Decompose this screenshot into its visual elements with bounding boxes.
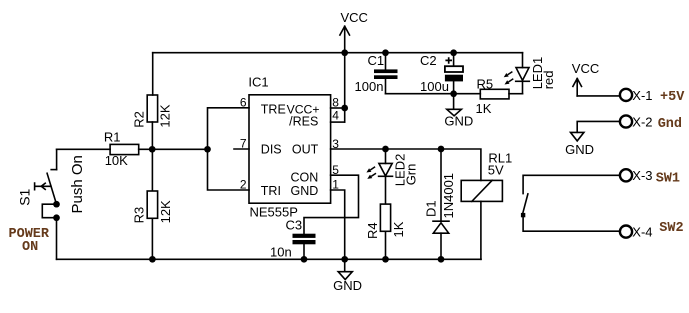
wire S1 top lead	[56, 149, 58, 169]
svg-text:VCC: VCC	[572, 61, 599, 76]
svg-text:100u: 100u	[420, 79, 449, 94]
capacitor C2 plus sign	[445, 57, 452, 64]
wire VCC vertical to pin 8 and pin 4	[344, 53, 346, 122]
wire LED2 top lead	[385, 149, 387, 163]
svg-text:5V: 5V	[488, 162, 504, 177]
LED2 emission arrows	[366, 167, 376, 179]
wire RL1 bottom lead	[480, 201, 482, 259]
LED2 cathode bar	[379, 175, 393, 177]
svg-text:X-4: X-4	[632, 224, 652, 239]
node C2 bottom	[450, 90, 457, 97]
svg-text:OUT: OUT	[292, 143, 319, 157]
wire pin 7 stub	[234, 148, 249, 150]
svg-text:3: 3	[332, 137, 339, 151]
capacitor C2 top plate	[445, 66, 463, 72]
wire LED1 bottom lead	[522, 81, 524, 93]
node GND rail junction	[341, 256, 348, 263]
wire R2 top lead	[152, 53, 154, 95]
wire OUT pin 3 to relay	[331, 149, 481, 180]
svg-text:X-1: X-1	[632, 88, 652, 103]
wire bottom rail	[57, 258, 481, 260]
wire R3 bottom lead	[151, 218, 153, 259]
svg-text:VCC: VCC	[341, 10, 368, 25]
wire R2 bottom lead	[151, 122, 153, 149]
svg-text:ON: ON	[22, 240, 38, 255]
wire X-2 lead	[577, 121, 619, 132]
svg-text:+5V: +5V	[660, 90, 685, 105]
wire GND lead bottom middle	[344, 259, 346, 271]
resistor R3 body	[147, 191, 157, 218]
wire C2 bottom lead	[453, 81, 455, 94]
node OUT D1	[438, 146, 445, 153]
svg-text:X-3: X-3	[632, 168, 652, 183]
wire R3 top lead	[151, 149, 153, 190]
svg-text:SW1: SW1	[656, 172, 680, 187]
node VCC rail at vertical	[341, 49, 348, 56]
relay contact pad square	[521, 213, 525, 217]
svg-text:R2: R2	[132, 111, 147, 128]
capacitor C1 plates	[374, 69, 398, 79]
wire R1 left lead	[57, 148, 111, 150]
wire pin 5 to C3	[304, 175, 359, 234]
power VCC symbol arrow (top)	[340, 26, 350, 53]
wire X-3 lead	[523, 175, 619, 193]
svg-text:TRE: TRE	[261, 102, 286, 116]
svg-text:6: 6	[240, 95, 247, 109]
svg-text:7: 7	[240, 136, 247, 150]
wire LED2 to R4	[385, 176, 387, 203]
switch S1 fixed contact tick	[51, 169, 56, 171]
wire pin 8 stub	[331, 107, 345, 109]
diode D1 cathode bar	[433, 220, 449, 222]
svg-text:SW2: SW2	[659, 221, 683, 236]
svg-text:S1: S1	[16, 188, 32, 205]
svg-text:IC1: IC1	[248, 74, 268, 89]
relay RL1 coil diagonal	[472, 180, 492, 201]
svg-text:TRI: TRI	[261, 184, 281, 198]
wire C1 bottom lead	[385, 79, 387, 94]
relay RL1 coil box	[461, 180, 502, 201]
wire X-4 lead	[523, 215, 619, 231]
svg-text:R1: R1	[104, 130, 121, 145]
svg-text:4: 4	[332, 109, 339, 123]
svg-text:R5: R5	[477, 76, 494, 91]
wire C1 to C2 bottom	[386, 93, 454, 95]
LED1 emission arrows	[504, 72, 514, 85]
wire C2 top lead	[453, 53, 455, 66]
svg-text:X-2: X-2	[632, 114, 652, 129]
svg-text:10n: 10n	[270, 244, 292, 259]
svg-text:GND: GND	[565, 142, 594, 157]
node trigger bus junction	[204, 146, 211, 153]
relay contact blade	[522, 194, 528, 215]
svg-text:GND: GND	[444, 113, 473, 128]
svg-text:12K: 12K	[158, 200, 173, 223]
node C1 top	[382, 49, 389, 56]
svg-text:GND: GND	[291, 184, 319, 198]
connector X-4 pad	[620, 226, 632, 238]
capacitor C3 plates	[293, 234, 316, 245]
svg-text:D1: D1	[424, 200, 439, 217]
svg-text:CON: CON	[291, 170, 319, 184]
capacitor C2 bottom plate	[445, 75, 463, 82]
wire R5 right lead	[509, 93, 523, 95]
wire R1 right lead	[139, 148, 208, 150]
svg-text:R3: R3	[132, 207, 147, 224]
svg-text:GND: GND	[333, 278, 362, 293]
switch S1 contact bracket	[42, 204, 56, 218]
wire GND lead under C2	[453, 94, 455, 110]
wire pin 1 to ground	[331, 190, 345, 259]
power VCC symbol arrow (right)	[573, 79, 582, 96]
wire D1 top lead	[440, 149, 442, 221]
wire pin 4 stub	[331, 121, 345, 123]
svg-text:10K: 10K	[105, 153, 128, 168]
ground symbol bottom middle	[338, 272, 352, 280]
ground symbol at X-2	[571, 132, 584, 141]
svg-text:DIS: DIS	[261, 143, 282, 157]
wire pin 6 to pin 2 left bus	[208, 108, 250, 190]
switch S1 blade	[47, 173, 56, 204]
LED1 cathode bar	[516, 80, 530, 82]
svg-text:1N4001: 1N4001	[441, 173, 456, 219]
node OUT LED2	[382, 146, 389, 153]
node S1 contact bottom	[53, 214, 60, 221]
LED2 diode triangle	[379, 163, 392, 176]
node R1 R2 R3 junction	[149, 146, 156, 153]
resistor R5 body	[480, 89, 509, 99]
svg-text:Grn: Grn	[404, 164, 419, 186]
svg-text:Gnd: Gnd	[658, 117, 682, 132]
diode D1 triangle	[433, 223, 448, 233]
node R3 bottom rail	[149, 256, 156, 263]
LED1 diode triangle	[516, 68, 529, 81]
svg-text:1K: 1K	[391, 221, 406, 237]
svg-text:R4: R4	[365, 222, 380, 239]
connector X-2 pad	[620, 115, 632, 127]
svg-text:/RES: /RES	[289, 115, 318, 129]
node C3 bottom rail	[301, 256, 308, 263]
svg-text:red: red	[541, 71, 556, 90]
wire VCC top rail	[153, 52, 523, 54]
switch S1 actuator plunger	[35, 183, 51, 190]
svg-text:8: 8	[332, 96, 339, 110]
wire R4 bottom lead	[385, 231, 387, 259]
connector X-3 pad	[620, 169, 632, 181]
wire D1 bottom lead	[440, 233, 442, 259]
wire C3 bottom lead	[303, 244, 305, 259]
svg-text:1K: 1K	[476, 101, 492, 116]
ground symbol under C2	[447, 109, 462, 116]
node D1 bottom rail	[438, 256, 445, 263]
node R4 bottom rail	[382, 256, 389, 263]
IC IC1 NE555P timer box outline	[249, 95, 331, 203]
connector X-1 pad	[620, 89, 632, 101]
resistor R4 body	[380, 204, 390, 231]
svg-text:2: 2	[240, 177, 247, 191]
node S1 contact top	[53, 201, 60, 208]
resistor R2 body	[147, 95, 157, 122]
svg-text:1: 1	[332, 177, 339, 191]
svg-text:C2: C2	[420, 53, 437, 68]
svg-text:5: 5	[332, 163, 339, 177]
svg-text:12K: 12K	[158, 104, 173, 127]
wire R5 left lead	[454, 93, 481, 95]
svg-text:Push On: Push On	[69, 155, 86, 213]
svg-text:C1: C1	[368, 53, 385, 68]
resistor R1 body	[110, 144, 139, 154]
node C2 top	[450, 49, 457, 56]
svg-text:100n: 100n	[355, 79, 384, 94]
svg-text:C3: C3	[286, 217, 303, 232]
wire LED1 top lead	[522, 53, 524, 68]
wire C1 top lead	[385, 53, 387, 70]
wire X-1 lead	[577, 95, 619, 97]
node pin 8	[341, 105, 348, 112]
wire S1 bottom lead	[56, 218, 58, 260]
